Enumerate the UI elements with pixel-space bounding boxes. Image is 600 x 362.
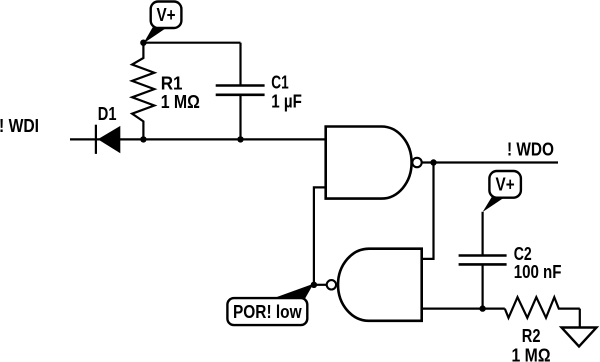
NAND gate U2 (mirrored) — [327, 249, 422, 321]
node V+ (top) callout — [143, 2, 181, 44]
svg-text:R2: R2 — [522, 326, 541, 346]
resistor R1 — [132, 43, 154, 140]
NAND gate U1 — [326, 127, 422, 199]
node POR! low callout — [227, 284, 313, 325]
junction: U1 output / feedback — [430, 159, 436, 165]
svg-text:C2: C2 — [514, 244, 532, 264]
resistor R2 — [505, 297, 580, 318]
svg-text:! WDI: ! WDI — [0, 116, 39, 136]
svg-text:1 MΩ: 1 MΩ — [512, 346, 551, 362]
node V+ (right) callout — [483, 171, 521, 212]
svg-text:100 nF: 100 nF — [514, 262, 562, 282]
svg-text:V+: V+ — [156, 5, 175, 25]
junction: V+ / R1 / top wire — [140, 40, 146, 46]
junction: D1 / R1 / main wire — [140, 136, 146, 142]
diode D1 — [96, 125, 120, 154]
ground — [562, 309, 597, 347]
svg-text:R1: R1 — [161, 73, 183, 93]
svg-text:! WDO: ! WDO — [507, 139, 554, 159]
junction: C1 / main wire — [237, 136, 243, 142]
svg-text:V+: V+ — [496, 175, 515, 195]
junction: C2 / R2 / U2 input — [479, 305, 485, 311]
capacitor C2 — [459, 212, 507, 309]
wire: U2 output stub to node — [314, 284, 326, 286]
wire: U2 lower input to R2/C2 node — [422, 308, 505, 310]
capacitor C1 — [216, 43, 265, 140]
svg-text:1 µF: 1 µF — [271, 92, 302, 112]
wire: top net V+ to C1 — [143, 42, 240, 44]
wire: U1 output feedback down to U2 upper input — [422, 163, 434, 259]
wire: U1 lower input stub — [314, 187, 326, 284]
svg-text:D1: D1 — [98, 104, 117, 124]
junction: U2 output / U1 input / POR tail — [311, 282, 317, 288]
svg-text:C1: C1 — [271, 73, 288, 93]
svg-text:POR! low: POR! low — [233, 302, 302, 322]
svg-text:1 MΩ: 1 MΩ — [161, 92, 200, 112]
wire: U1 output to ! WDO — [422, 161, 558, 163]
wire: main input net at y=139.4 — [70, 138, 326, 140]
